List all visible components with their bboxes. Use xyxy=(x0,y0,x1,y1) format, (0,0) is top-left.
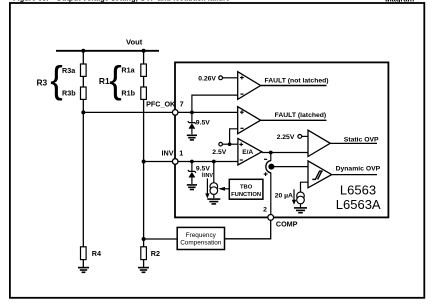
wire Dynamic OVP lower input to 20uA source xyxy=(301,182,309,192)
svg-text:1: 1 xyxy=(179,149,183,158)
arrow TBO to Iinv source xyxy=(218,187,229,191)
wire R4 to ground xyxy=(82,260,84,268)
wire pin1 to E/A inverting input xyxy=(175,161,238,163)
wire Frequency Compensation box to COMP pin xyxy=(225,217,271,238)
svg-text:INV: INV xyxy=(162,149,174,158)
svg-text:L6563: L6563 xyxy=(340,182,376,197)
node: rail/R1 junction xyxy=(142,49,146,53)
node PFC_OK/R3 junction xyxy=(81,110,85,114)
ground (pin1 zener) xyxy=(187,185,197,190)
wire rail to R1a xyxy=(143,51,145,64)
svg-text:TBO: TBO xyxy=(240,185,253,191)
node zener branch on pin7 wire xyxy=(190,111,194,115)
comparator FAULT (not latched) xyxy=(238,72,261,100)
svg-text:2.5V: 2.5V xyxy=(212,149,226,156)
svg-text:COMP: COMP xyxy=(276,219,298,228)
wire rail to R3a xyxy=(82,51,84,64)
svg-text:R2: R2 xyxy=(151,249,160,258)
svg-text:Vout: Vout xyxy=(126,38,143,47)
wire up-branch to FAULT(not latched) inverting input xyxy=(192,95,238,112)
wire Static OVP output xyxy=(330,142,377,144)
svg-text:Static OVP: Static OVP xyxy=(344,136,379,143)
wire node to Frequency Compensation box xyxy=(144,238,178,240)
wire R2 to ground xyxy=(143,260,145,268)
cut-off caption text fragments at top xyxy=(13,0,415,3)
wire 2.5V branch to FAULT(latched) inverting input xyxy=(230,129,238,144)
wire R1a to R1b xyxy=(143,76,145,87)
svg-text:R4: R4 xyxy=(92,249,101,258)
op-amp E/A xyxy=(238,139,262,166)
svg-text:FUNCTION: FUNCTION xyxy=(231,192,261,198)
svg-text:E/A: E/A xyxy=(242,149,253,156)
svg-text:FAULT (latched): FAULT (latched) xyxy=(275,112,327,119)
wire R3b down to PFC_OK line and R4 xyxy=(82,99,84,246)
pin 2 circle xyxy=(268,215,274,221)
ground under R4 xyxy=(78,268,89,273)
svg-text:R1: R1 xyxy=(99,76,110,86)
wire R3a to R3b xyxy=(82,76,84,87)
Frequency Compensation box xyxy=(177,227,224,249)
IC box L6563 xyxy=(175,62,388,217)
wire pin7 to comparator inside IC xyxy=(175,111,238,113)
wire monitor to Dynamic OVP input xyxy=(271,166,308,168)
svg-text:Frequency: Frequency xyxy=(186,232,217,239)
wire 0.26V to comparator + xyxy=(223,77,238,79)
node Iinv branch on INV wire xyxy=(212,160,216,164)
wire 2.25V to Static OVP comparator xyxy=(302,135,308,137)
svg-text:FAULT (not latched): FAULT (not latched) xyxy=(265,78,329,85)
current source 20uA xyxy=(297,192,305,207)
svg-text:2: 2 xyxy=(263,207,267,214)
svg-text:2.25V: 2.25V xyxy=(277,134,295,141)
wire E/A output down to COMP pin xyxy=(270,153,272,161)
comparator FAULT (latched) xyxy=(238,107,261,134)
current monitor on COMP line xyxy=(264,159,275,176)
resistor R3b xyxy=(81,87,87,99)
svg-text:0.26V: 0.26V xyxy=(198,75,216,82)
comparator Static OVP xyxy=(308,130,330,156)
svg-text:R3a: R3a xyxy=(62,66,76,75)
svg-text:{: { xyxy=(50,58,63,100)
wire R1b down to INV line and R2 xyxy=(143,99,145,246)
svg-text:Dynamic OVP: Dynamic OVP xyxy=(336,166,381,173)
wire E/A output xyxy=(262,152,308,154)
wire Dynamic OVP output xyxy=(332,174,377,176)
svg-text:L6563A: L6563A xyxy=(336,197,381,212)
ground (pin7 zener) xyxy=(187,135,197,140)
schmitt hysteresis symbol xyxy=(312,171,322,179)
resistor R1b xyxy=(141,87,147,99)
wire INV line xyxy=(144,161,175,163)
svg-text:R3b: R3b xyxy=(62,88,76,97)
resistor R3a xyxy=(81,64,87,76)
resistor R2 xyxy=(141,247,147,260)
node E/A output junction xyxy=(269,151,273,155)
current source Iinv xyxy=(210,162,218,199)
ground (Iinv source) xyxy=(207,199,220,204)
zener diode 9.5V (pin 7) xyxy=(188,112,196,134)
svg-text:20 µA: 20 µA xyxy=(275,193,293,200)
svg-text:Compensation: Compensation xyxy=(180,239,222,246)
svg-text:R1b: R1b xyxy=(121,88,135,97)
arrow (Iinv direction) xyxy=(205,179,209,199)
comparator Dynamic OVP (schmitt) xyxy=(308,161,332,188)
svg-text:9.5V: 9.5V xyxy=(196,119,210,126)
svg-text:PFC_OK: PFC_OK xyxy=(146,99,176,108)
svg-text:7: 7 xyxy=(180,99,184,108)
arrow (20uA direction) xyxy=(292,189,296,204)
svg-text:INV: INV xyxy=(204,173,213,179)
zener diode 9.5V (pin 1) xyxy=(188,162,196,185)
ground (20uA source) xyxy=(294,208,307,213)
wire PFC_OK line xyxy=(83,111,175,113)
resistor R1a xyxy=(141,64,147,76)
Vout rail xyxy=(56,50,159,52)
resistor R4 xyxy=(81,247,87,260)
svg-text:{: { xyxy=(109,58,122,100)
wire FAULT (latched) output xyxy=(261,119,327,121)
node 2.5V branch junction xyxy=(228,142,232,146)
ground under R2 xyxy=(138,268,149,273)
pin 7 circle xyxy=(172,110,178,116)
node: rail/R3 junction xyxy=(81,49,85,53)
node INV/R1 junction xyxy=(142,160,146,164)
wire FAULT (not latched) output xyxy=(261,85,327,87)
wire 2.5V to E/A + xyxy=(222,143,238,145)
node R2/Frequency-Compensation junction xyxy=(142,237,146,241)
pin 1 circle xyxy=(172,159,178,165)
TBO FUNCTION box xyxy=(229,179,263,199)
2.5V reference xyxy=(219,142,223,146)
svg-text:R3: R3 xyxy=(37,78,48,88)
node zener branch on INV wire xyxy=(190,160,194,164)
svg-text:R1a: R1a xyxy=(121,66,135,75)
